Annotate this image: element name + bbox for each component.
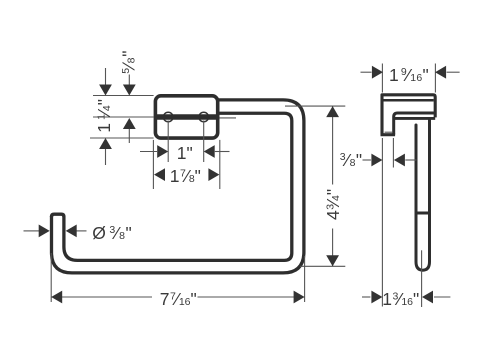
svg-text:13⁄16": 13⁄16" [382,289,419,309]
svg-text:43⁄4": 43⁄4" [323,189,343,220]
svg-text:19⁄16": 19⁄16" [389,65,429,85]
svg-text:77⁄16": 77⁄16" [160,289,197,309]
svg-text:1": 1" [177,143,193,163]
svg-text:17⁄8": 17⁄8" [170,166,201,186]
